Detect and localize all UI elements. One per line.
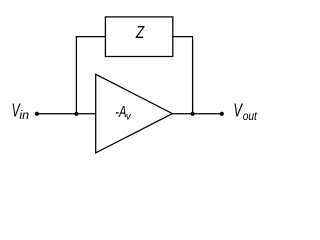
node: output terminal dot (Vout) — [220, 112, 224, 116]
wire: left feedback (riser up from input node, then right to Z box left pin) — [76, 37, 105, 114]
svg-text:V: V — [233, 102, 243, 122]
junction: feedback tap on input wire — [74, 112, 78, 116]
svg-text:out: out — [243, 110, 258, 123]
impedance Z (feedback element box) — [105, 17, 172, 57]
svg-text:v: v — [126, 111, 132, 122]
node: input terminal dot (Vin) — [35, 112, 39, 116]
wire: output from amplifier apex to Vout terminal — [172, 113, 221, 115]
label Vin (input voltage) — [12, 101, 30, 122]
label Vout (output voltage) — [233, 102, 257, 123]
svg-text:Z: Z — [135, 23, 145, 42]
op-amp U1: inverting amplifier triangle — [96, 74, 173, 153]
wire: right feedback (from Z box right pin, then down to output node) — [173, 37, 193, 114]
label -Av (amplifier gain) — [115, 103, 131, 122]
svg-text:-A: -A — [115, 103, 126, 120]
wire: input from Vin terminal to amplifier input — [37, 113, 96, 115]
svg-text:in: in — [19, 108, 29, 122]
junction: feedback tap on output wire — [191, 112, 195, 116]
